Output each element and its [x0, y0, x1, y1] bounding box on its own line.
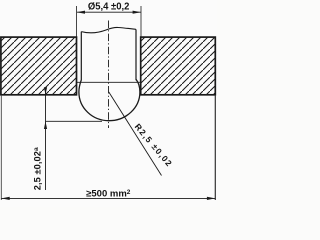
hatched plate left block	[1, 37, 77, 95]
ball (hemispherical end R2.5)	[79, 79, 140, 120]
extension line right	[140, 6, 142, 37]
ball equator line	[77, 81, 141, 83]
arrow bottom (pointing up, tip at ball bottom level)	[44, 121, 47, 129]
area dimension: left extension line	[0, 95, 2, 200]
radius leader R2,5	[109, 92, 162, 176]
arrow left	[77, 11, 85, 14]
dimension line	[77, 11, 141, 13]
svg-text:Ø5,4 ±0,2: Ø5,4 ±0,2	[88, 1, 130, 12]
arrow right	[133, 11, 141, 14]
bottom dimension line	[1, 197, 215, 199]
arrow top (pointing down, tip at plate bottom)	[44, 87, 47, 94]
centerline	[108, 21, 110, 129]
right extension line	[214, 95, 216, 200]
arrow left	[1, 197, 9, 200]
dimension 2,5 ±0,02 : vertical line	[45, 88, 47, 191]
cylinder right wall	[135, 29, 137, 80]
hatched plate right block	[141, 37, 216, 95]
cylinder top break line	[81, 27, 136, 32]
dimension Ø5,4 ±0,2 : extension line left	[76, 6, 78, 37]
extension line at ball bottom	[46, 120, 103, 122]
arrow right	[207, 197, 215, 200]
svg-text:2,5 ±0,02a: 2,5 ±0,02a	[32, 147, 42, 190]
svg-text:≥500 mm2: ≥500 mm2	[86, 189, 131, 200]
cylinder left wall	[80, 32, 82, 81]
